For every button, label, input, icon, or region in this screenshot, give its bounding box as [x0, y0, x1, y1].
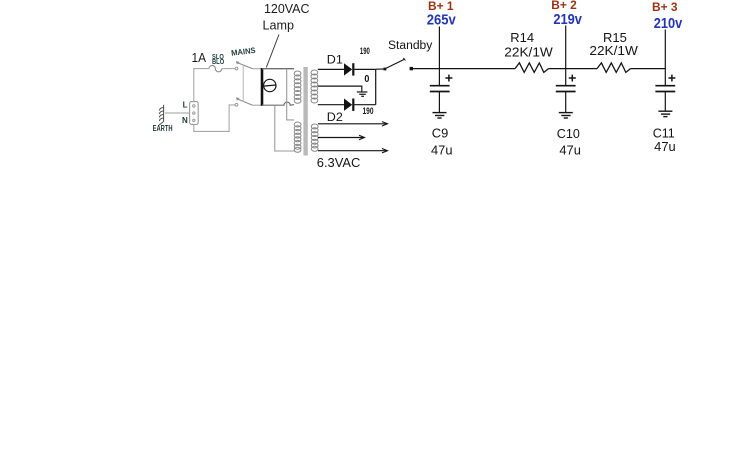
- svg-text:N: N: [182, 116, 188, 125]
- wire B+ rail segment 2: [549, 68, 598, 70]
- svg-text:6.3VAC: 6.3VAC: [317, 155, 361, 170]
- wire HT secondary top to D1: [318, 68, 344, 70]
- wire primary bottom with hop: [262, 102, 294, 105]
- transformer HT secondary winding: [311, 70, 318, 103]
- wire primary bottom to second primary bottom: [275, 105, 294, 151]
- ground center tap: [357, 92, 368, 96]
- terminal pin mid: [193, 112, 195, 114]
- wire earth to terminal block: [165, 112, 190, 114]
- capacitor C9: [430, 86, 450, 92]
- wire HT secondary bottom to D2: [318, 104, 344, 106]
- wire rectifier output junction vertical: [375, 69, 377, 104]
- svg-text:EARTH: EARTH: [153, 124, 173, 133]
- resistor R15: [597, 63, 631, 73]
- resistor R14: [515, 63, 549, 73]
- switch Standby blade: [385, 59, 404, 68]
- switch MAINS pole 2 contact: [235, 103, 238, 106]
- switch MAINS pole 1 contact: [235, 67, 238, 70]
- wire pole2 to primary bottom: [253, 104, 262, 106]
- diode D2: [344, 99, 352, 111]
- node B+3 vertical wire: [664, 30, 666, 86]
- svg-text:B+ 3: B+ 3: [652, 0, 678, 14]
- svg-text:C9: C9: [432, 127, 449, 141]
- wire C9 to ground: [438, 92, 440, 112]
- ground C11: [658, 111, 672, 116]
- svg-text:1A: 1A: [192, 51, 207, 65]
- switch Standby contact: [410, 67, 413, 70]
- wire lamp box right side down to second primary: [287, 69, 294, 120]
- wire B+ rail segment 1: [413, 68, 515, 70]
- transformer 6.3VAC heater winding: [311, 124, 318, 151]
- fuse F1: [209, 65, 222, 71]
- svg-text:190: 190: [360, 46, 370, 56]
- leader line to lamp: [266, 35, 279, 68]
- switch Standby pivot: [384, 68, 387, 71]
- svg-text:190: 190: [363, 106, 374, 116]
- wire D2 cathode to junction: [354, 104, 375, 106]
- wire HT center tap: [318, 86, 362, 92]
- node B+2 vertical wire: [565, 26, 567, 86]
- terminal pin N: [193, 119, 195, 121]
- svg-text:219v: 219v: [553, 12, 582, 28]
- svg-text:Standby: Standby: [388, 40, 433, 52]
- svg-text:BLO: BLO: [212, 59, 225, 66]
- earth ground symbol: [159, 105, 164, 125]
- wire 6.3VAC line 3: [318, 150, 387, 152]
- svg-text:C10: C10: [557, 127, 580, 141]
- transformer T1 primary winding top: [294, 71, 301, 103]
- svg-text:Lamp: Lamp: [263, 17, 295, 32]
- wire primary top: [262, 68, 294, 70]
- svg-text:22K/1W: 22K/1W: [504, 45, 553, 60]
- terminal block: [190, 102, 199, 125]
- svg-text:B+ 1: B+ 1: [428, 0, 454, 13]
- lamp: [264, 79, 276, 91]
- svg-text:R14: R14: [510, 30, 534, 45]
- switch MAINS pole 1 blade: [238, 63, 253, 69]
- svg-text:47u: 47u: [559, 143, 581, 157]
- ground C10: [559, 113, 573, 118]
- wire C11 to ground: [664, 92, 666, 111]
- switch linkage: [242, 66, 244, 102]
- wire pole1 to lamp bar: [253, 68, 262, 70]
- node B+1 vertical wire: [438, 27, 440, 86]
- svg-text:265v: 265v: [427, 13, 456, 29]
- svg-text:0: 0: [364, 74, 369, 85]
- svg-text:210v: 210v: [654, 16, 683, 32]
- svg-text:B+ 2: B+ 2: [551, 0, 577, 12]
- ground C9: [433, 113, 447, 118]
- svg-text:47u: 47u: [654, 140, 676, 154]
- wire 6.3VAC line 1: [318, 123, 387, 125]
- svg-text:22K/1W: 22K/1W: [589, 43, 638, 58]
- svg-text:120VAC: 120VAC: [264, 1, 310, 16]
- wire live from L terminal to fuse: [194, 69, 209, 102]
- wire junction to standby switch: [376, 68, 385, 70]
- lamp connection bar: [261, 68, 264, 106]
- wire fuse to mains switch: [222, 68, 235, 70]
- svg-text:C11: C11: [653, 127, 675, 141]
- transformer T1 primary winding bottom: [294, 122, 301, 152]
- transformer core: [303, 67, 307, 156]
- switch MAINS pole 2 blade: [238, 99, 253, 105]
- wire neutral from N terminal to switch: [194, 105, 235, 131]
- svg-text:47u: 47u: [431, 143, 453, 157]
- wire 6.3VAC line 2: [318, 137, 364, 139]
- svg-text:L: L: [183, 101, 188, 110]
- wire C10 to ground: [565, 92, 567, 112]
- terminal pin L: [193, 105, 195, 107]
- diode D1: [344, 63, 352, 75]
- wire B+ rail segment 3: [631, 68, 666, 70]
- capacitor C10: [556, 86, 576, 92]
- svg-text:D2: D2: [327, 110, 343, 124]
- wire D1 cathode to junction: [354, 68, 375, 70]
- capacitor C11: [655, 86, 675, 92]
- svg-text:D1: D1: [327, 53, 343, 67]
